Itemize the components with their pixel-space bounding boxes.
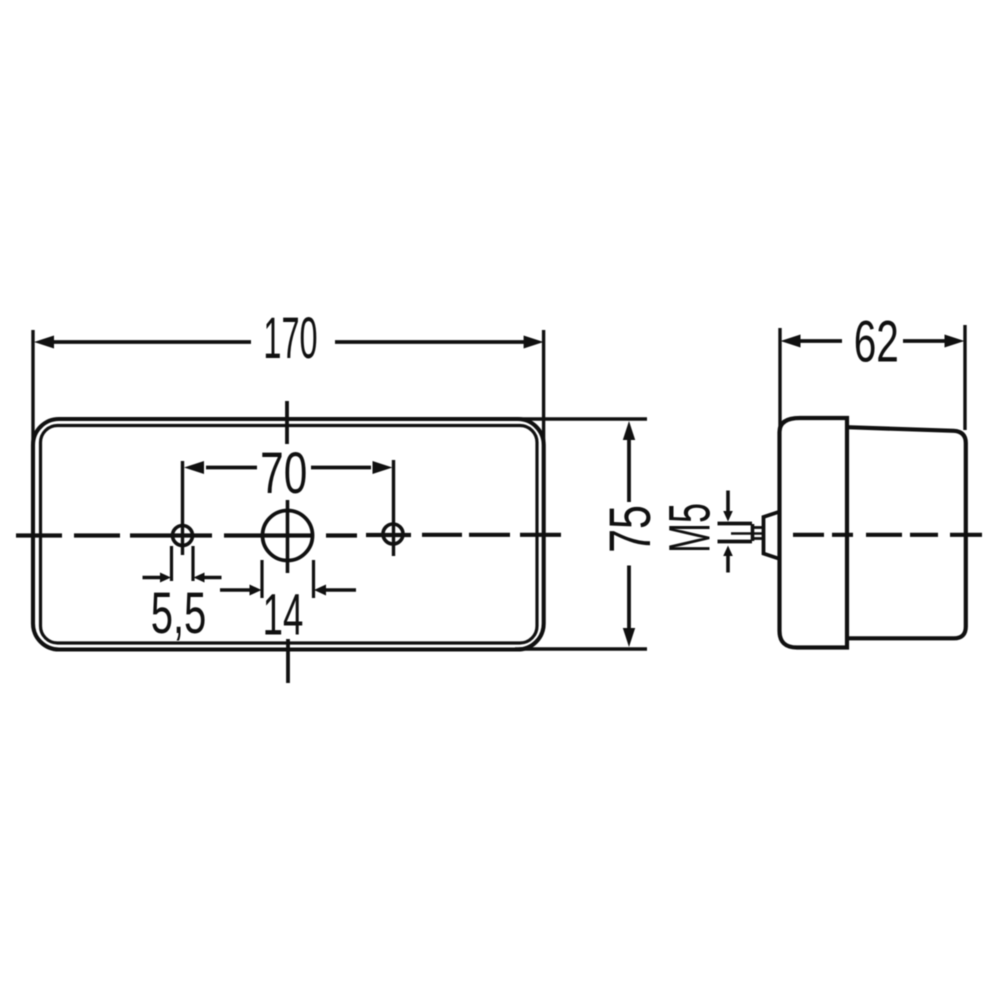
svg-text:14: 14 [263, 583, 304, 648]
svg-text:70: 70 [260, 440, 307, 505]
svg-text:5,5: 5,5 [151, 581, 207, 646]
svg-text:M5: M5 [658, 503, 723, 553]
svg-text:75: 75 [598, 505, 663, 553]
svg-text:62: 62 [854, 309, 899, 374]
svg-text:170: 170 [263, 305, 317, 370]
